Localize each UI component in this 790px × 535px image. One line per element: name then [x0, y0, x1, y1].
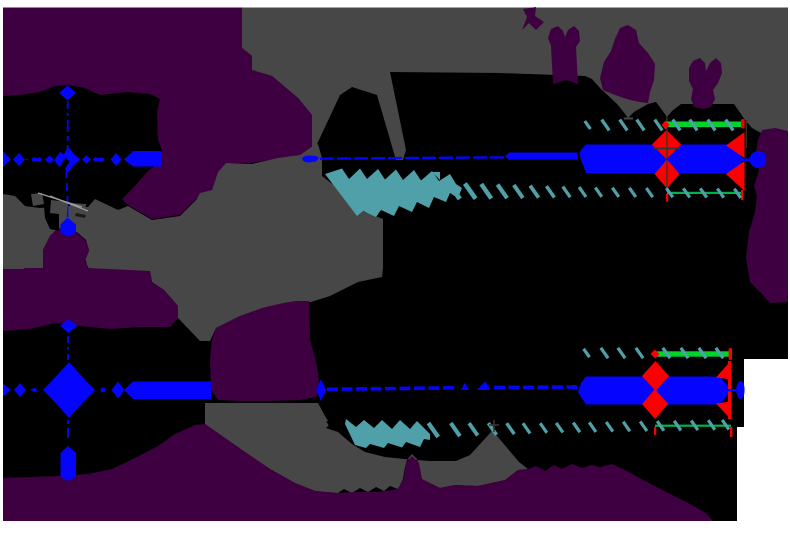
gray background region (top) — [242, 8, 788, 161]
purple background band (bottom) — [3, 424, 712, 521]
crosshair — [654, 116, 680, 192]
hatch tick marks (row 2 upper) — [584, 349, 590, 357]
black finger beside pentagon terminal — [44, 206, 59, 231]
purple background column (right) — [746, 128, 788, 303]
node diamond — [45, 156, 54, 164]
fat wire segment (left, row 1) — [124, 151, 162, 167]
survey cross above gray pyramid — [489, 420, 499, 432]
node diamond — [14, 383, 26, 397]
red arrowheads at right end (row 1) — [726, 132, 745, 158]
purple blob: pillar 2 (large) — [600, 25, 655, 103]
green dimension line (row 1 lower, thin) — [667, 192, 742, 194]
leader arrowhead (black) — [326, 421, 338, 429]
purple background region (top left) — [3, 8, 312, 220]
green dimension line (row 2 lower, thin) — [655, 425, 731, 427]
blue capsule terminal (row 2) — [61, 446, 77, 481]
wire dash (dumbbell) — [33, 158, 42, 161]
blue neck (row 1) — [742, 159, 750, 162]
blue tip wedge (row 1) — [726, 145, 744, 174]
node diamond — [82, 155, 91, 164]
red arrowheads at right end (row 2) — [728, 361, 731, 419]
hatch tick marks (row 1 upper) — [585, 121, 591, 129]
big node diamond (row 2) — [43, 362, 95, 418]
red diamond marker (lower, row 2) — [642, 389, 668, 419]
node diamond — [13, 153, 25, 166]
dashed thin wire (row 2 middle) — [327, 388, 458, 390]
medium wire segment — [505, 153, 578, 160]
purple blob: pillar 3 — [689, 58, 722, 109]
purple blob: bowtie top center — [522, 7, 544, 30]
hatch tick marks (row 2 lower) — [428, 423, 438, 437]
hatch zigzag band (row 2) — [345, 419, 430, 448]
gray background region (middle left) — [3, 144, 383, 341]
wire: row-1 centerline left arrow — [3, 151, 11, 167]
node diamond — [111, 153, 122, 166]
fat band (row 1 right) — [580, 145, 742, 174]
purple blob: pillar 1 — [548, 26, 580, 84]
fat wire segment (row 2 left) — [124, 382, 211, 400]
wire dash (dumbbell) — [94, 158, 104, 161]
purple background band (left middle) — [3, 228, 178, 331]
red diamond marker (upper, row 2) — [642, 361, 669, 391]
blue pentagon terminal below crossing — [61, 218, 77, 237]
extension line — [745, 120, 747, 148]
gray patches in scribble area — [31, 193, 44, 206]
fat band (row 2 right) — [578, 377, 718, 405]
node diamond at purple edge — [316, 379, 326, 401]
wire resume blob after purple blob — [302, 156, 319, 163]
blue tip wedge (row 2) — [716, 377, 732, 405]
hatch tick marks (row 1 lower) — [449, 183, 460, 199]
tiny T mark at valley tip — [624, 118, 633, 120]
wire: row-2 centerline left arrow — [3, 384, 11, 397]
vertical centerline (row 2) — [60, 319, 77, 333]
dashed thin wire (row 1 middle) — [320, 157, 506, 158]
light scribble lines — [38, 193, 88, 211]
red diamond marker (lower, row 1) — [655, 160, 680, 189]
green dimension line (row 1 top) — [666, 122, 742, 128]
gray background region (bottom center) — [205, 403, 528, 493]
purple foreground blob (center) — [210, 301, 319, 401]
vertical centerline (row 1) with top diamond — [59, 86, 76, 101]
red diamond marker (upper, row 1) — [652, 130, 681, 159]
crossing node blob — [54, 147, 80, 173]
green dimension line (row 2 top) — [657, 351, 730, 356]
node diamond — [112, 382, 125, 399]
blue neck (row 2) — [728, 389, 737, 391]
hatch zigzag band (row 1) — [325, 169, 462, 218]
